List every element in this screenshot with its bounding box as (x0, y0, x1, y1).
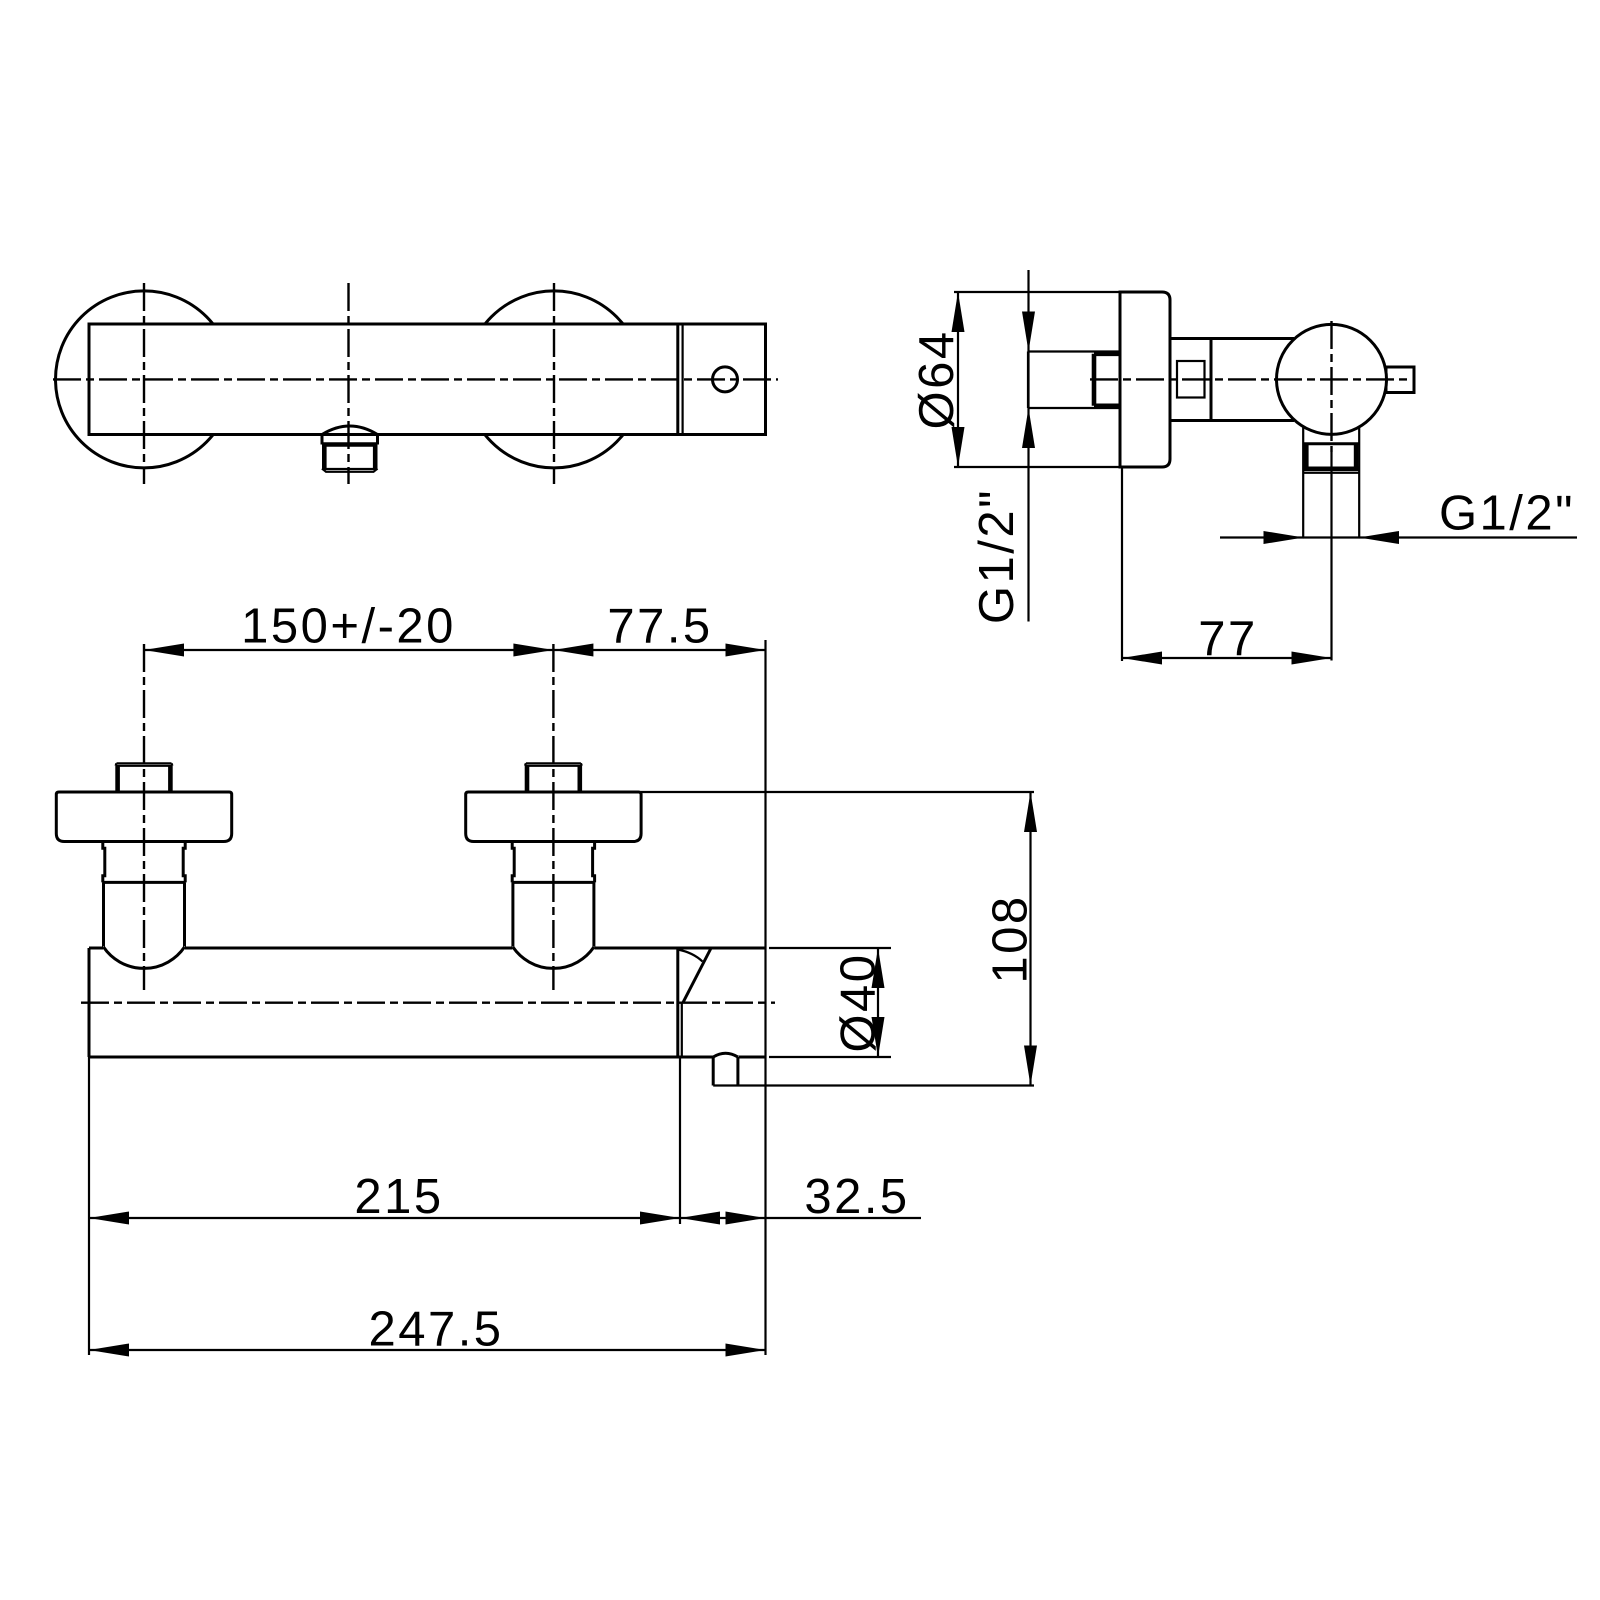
svg-text:108: 108 (984, 894, 1038, 983)
svg-text:150+/-20: 150+/-20 (241, 600, 456, 654)
svg-text:Ø40: Ø40 (832, 952, 886, 1052)
svg-text:77: 77 (1198, 612, 1258, 666)
svg-text:G1/2": G1/2" (970, 488, 1024, 624)
svg-text:247.5: 247.5 (368, 1303, 503, 1357)
svg-text:77.5: 77.5 (607, 600, 712, 654)
svg-text:G1/2": G1/2" (1439, 487, 1575, 541)
svg-text:Ø64: Ø64 (910, 329, 964, 429)
svg-text:215: 215 (354, 1170, 443, 1224)
svg-text:32.5: 32.5 (804, 1170, 909, 1224)
